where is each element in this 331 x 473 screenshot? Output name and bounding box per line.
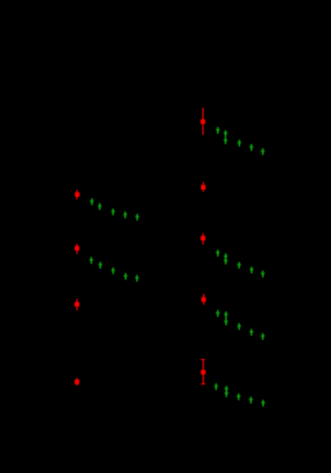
group R4: [216, 310, 221, 317]
point L2: [75, 244, 80, 254]
red data points with error bars: [75, 108, 206, 386]
point R1: [201, 108, 206, 135]
group R3: [216, 250, 221, 257]
point L4: [75, 378, 80, 386]
point L1: [75, 190, 80, 199]
point R3: [201, 233, 206, 244]
point R4: [201, 294, 206, 305]
point R5 with caps: [201, 359, 206, 385]
point L3: [75, 299, 80, 310]
group L2: [89, 257, 94, 264]
point R2: [201, 182, 206, 192]
group R5: [214, 383, 219, 390]
group R1: [216, 127, 221, 134]
green upper limits: [89, 127, 265, 407]
group L1: [90, 198, 95, 205]
